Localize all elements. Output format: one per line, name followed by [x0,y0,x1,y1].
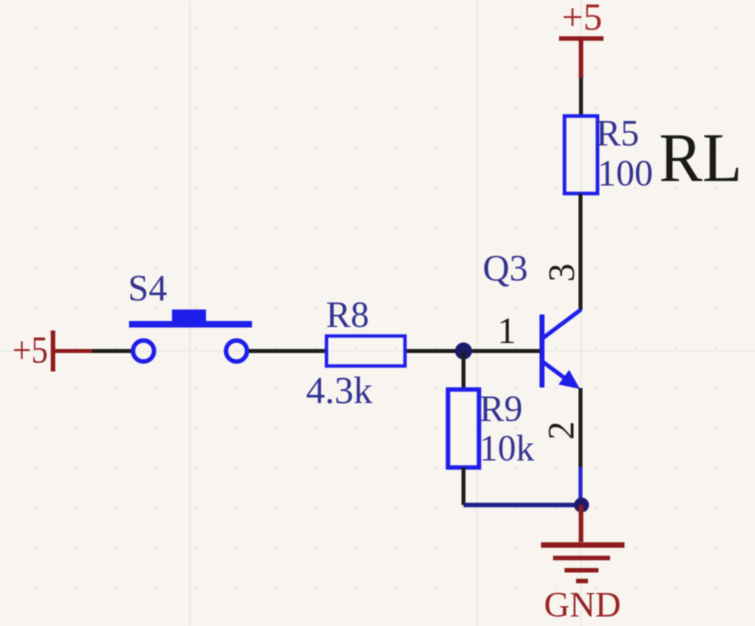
svg-text:3: 3 [542,263,583,282]
svg-text:GND: GND [544,585,621,625]
wire: +5 to S4 [92,349,131,353]
junction node at base [455,343,472,360]
wire: Q3 emitter [579,388,583,505]
resistor R5 [565,116,598,194]
svg-text:S4: S4 [128,269,167,310]
power +5 (top) [559,0,604,78]
power +5 (left) [12,329,93,372]
svg-text:R8: R8 [326,295,369,336]
wire: R5 to Q3 collector [579,194,583,311]
svg-text:4.3k: 4.3k [306,370,373,412]
junction node at emitter/ground [574,498,589,513]
transistor Q3 [542,310,581,390]
wire: S4 to R8 [249,349,327,353]
svg-text:RL: RL [659,119,742,197]
wire: base (junction to Q3) [405,349,540,353]
wire: ground net horizontal [464,503,582,508]
svg-text:R9: R9 [480,389,523,430]
wire: +5 to R5 [579,78,583,117]
wire: junction to R9 [462,351,466,390]
ground [541,505,625,581]
wire: R9 to ground net [462,468,466,506]
svg-text:R5: R5 [596,114,639,155]
svg-text:2: 2 [542,421,583,440]
svg-text:+5: +5 [562,0,602,39]
resistor R8 [327,336,406,366]
switch S4 [129,310,252,362]
resistor R9 [448,390,479,468]
svg-text:+5: +5 [12,329,48,371]
svg-text:10k: 10k [480,428,536,469]
svg-text:Q3: Q3 [483,249,528,290]
svg-text:100: 100 [598,154,654,195]
svg-text:1: 1 [498,311,517,352]
